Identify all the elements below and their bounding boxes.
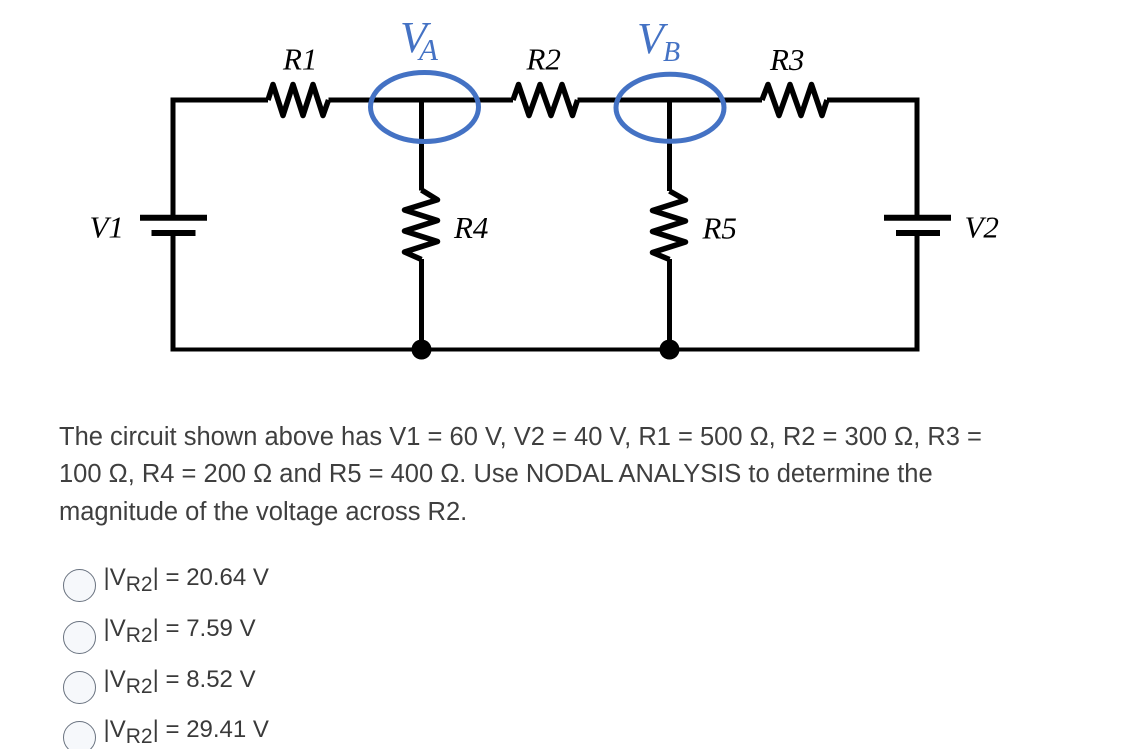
option 2 radio <box>63 621 96 654</box>
resistor R1 <box>268 85 329 116</box>
svg-text:V1: V1 <box>90 210 124 245</box>
svg-text:R3: R3 <box>769 42 804 77</box>
svg-text:R5: R5 <box>702 211 737 246</box>
svg-text:R4: R4 <box>453 210 488 245</box>
option 1 radio <box>63 569 96 602</box>
node A ellipse <box>371 73 479 142</box>
resistor R5 <box>653 191 686 260</box>
junction dot at R4 bottom <box>412 340 432 360</box>
resistor R2 <box>513 85 578 116</box>
svg-text:R1: R1 <box>282 42 317 77</box>
option 2 label <box>104 615 256 643</box>
wire node A drop to R4 <box>419 100 424 191</box>
option 4 label <box>104 716 269 744</box>
battery V2 long plate <box>884 215 951 221</box>
wire R5 to bottom junction <box>667 259 672 350</box>
wire top segment R1 to R2 through node A <box>329 98 514 103</box>
option 3 radio <box>63 671 96 704</box>
option 3 label <box>104 666 256 694</box>
wire R4 to bottom junction <box>419 259 424 350</box>
question paragraph <box>59 419 982 532</box>
resistor R3 <box>762 85 827 116</box>
wire top segment left (V1 to R1) <box>171 98 268 103</box>
resistor R4 <box>405 190 438 260</box>
svg-text:R2: R2 <box>526 42 561 77</box>
wire top segment R3 to V2 <box>827 98 919 103</box>
wire right vertical upper (top wire to V2) <box>915 98 920 216</box>
wire left vertical lower (V1 to bottom wire) <box>171 236 176 352</box>
svg-text:A: A <box>417 32 439 67</box>
wire bottom horizontal <box>171 348 920 352</box>
battery V1 short plate <box>152 230 196 236</box>
battery V1 long plate <box>140 215 207 221</box>
wire node B drop to R5 <box>667 100 672 191</box>
node B ellipse <box>616 74 724 141</box>
wire left vertical upper (top wire to V1) <box>171 98 176 216</box>
svg-text:B: B <box>663 37 680 68</box>
junction dot at R5 bottom <box>660 340 680 360</box>
svg-text:V2: V2 <box>965 210 999 245</box>
option 1 label <box>104 564 269 592</box>
wire top segment R2 to R3 through node B <box>578 98 763 103</box>
wire right vertical lower (V2 to bottom wire) <box>915 236 920 352</box>
option 4 radio <box>63 721 96 749</box>
battery V2 short plate <box>896 230 940 236</box>
